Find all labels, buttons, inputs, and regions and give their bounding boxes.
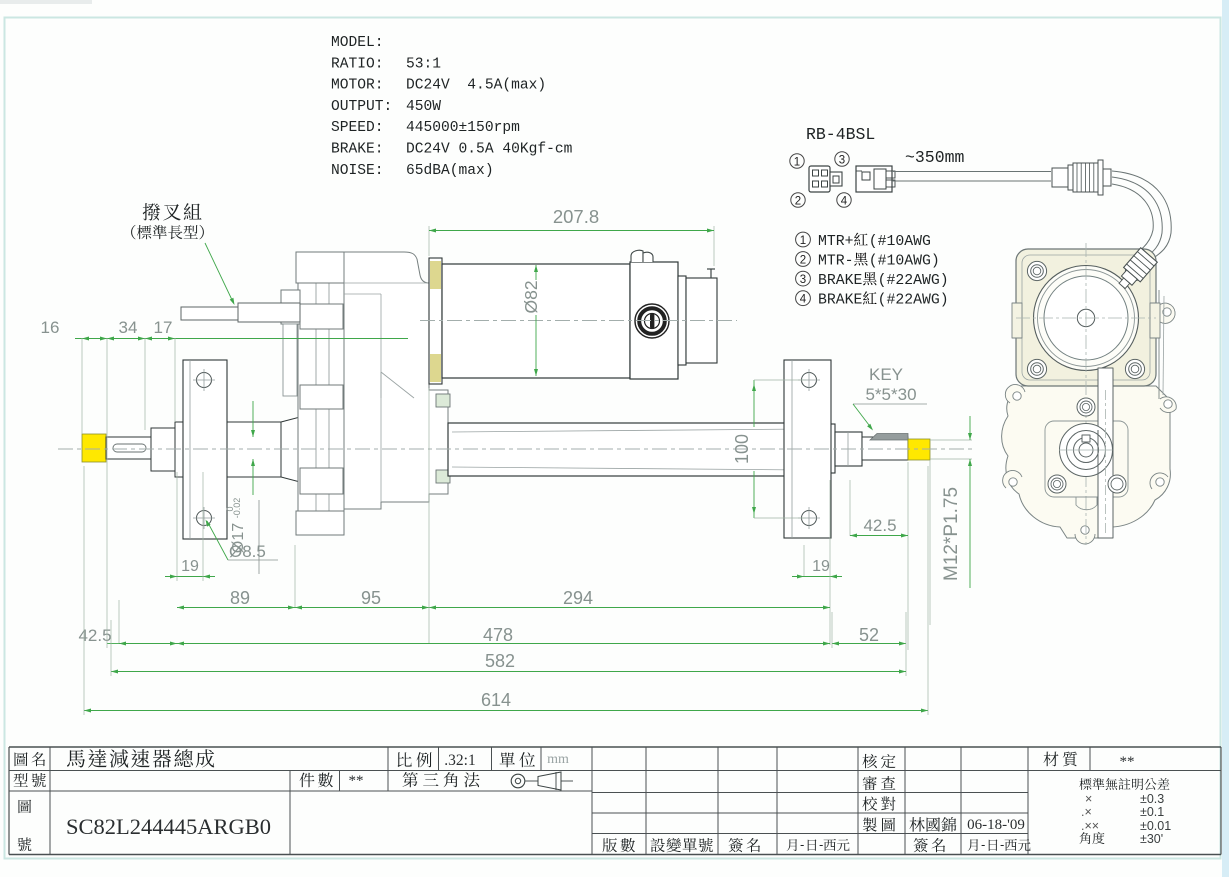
svg-text:582: 582 — [485, 651, 515, 671]
legend line 1 — [796, 232, 811, 247]
svg-text:42.5: 42.5 — [863, 516, 896, 535]
rear housing ear right-low — [1150, 473, 1168, 489]
svg-text:.×: .× — [1081, 805, 1092, 819]
svg-text:89: 89 — [230, 588, 250, 608]
fork pivot tab — [281, 290, 300, 324]
circled pin number 3 — [835, 152, 849, 166]
title unit label — [500, 752, 535, 767]
svg-text:.××: .×× — [1081, 819, 1099, 833]
hub tab lower — [436, 470, 450, 483]
bottom date label — [787, 839, 797, 851]
title cell drawing-name label — [15, 752, 46, 766]
svg-text:±0.01: ±0.01 — [1140, 819, 1171, 833]
svg-text:DC24V 4.5A(max): DC24V 4.5A(max) — [406, 78, 546, 94]
motor centerline — [420, 320, 737, 322]
rear center hub — [1077, 309, 1094, 326]
dimension 100 — [753, 380, 755, 427]
right bracket top hole — [802, 373, 817, 388]
svg-text:BRAKE: BRAKE — [818, 293, 863, 309]
title cell 號 — [18, 837, 32, 851]
rear housing ear right-top — [1158, 303, 1175, 323]
rear corner bolt BL — [1027, 359, 1046, 378]
dimension M12*P1.75 — [930, 439, 972, 441]
rear right side wall — [1158, 290, 1160, 399]
svg-text:207.8: 207.8 — [553, 206, 599, 227]
svg-text:614: 614 — [481, 690, 511, 710]
svg-text:3: 3 — [839, 155, 845, 167]
rear bottom arc detail — [1076, 497, 1097, 510]
dimension dia 82 — [535, 265, 537, 280]
third angle projection symbol — [511, 774, 525, 788]
svg-text:0: 0 — [225, 506, 235, 511]
bottom sign label 2 — [914, 838, 945, 852]
svg-text:4: 4 — [841, 196, 848, 208]
gearbox front flange column — [298, 252, 344, 535]
svg-text:**: ** — [1120, 754, 1135, 770]
tolerance note heading — [1079, 778, 1169, 790]
rear bolt below flange — [1077, 398, 1095, 416]
circled pin number 4 — [837, 193, 851, 207]
left axle yellow tip — [82, 434, 106, 462]
flange block lower — [300, 468, 343, 494]
svg-text:BRAKE:: BRAKE: — [331, 142, 384, 158]
inline connector on cable — [1052, 168, 1068, 187]
svg-text:-: - — [800, 837, 804, 852]
svg-text:52: 52 — [859, 625, 879, 645]
svg-text:KEY: KEY — [869, 365, 903, 384]
gearbox main body — [344, 252, 448, 509]
connector side view — [856, 166, 892, 192]
svg-text:100: 100 — [732, 434, 752, 464]
title qty label — [300, 773, 333, 788]
svg-text:SPEED:: SPEED: — [331, 120, 384, 136]
svg-text:M12*P1.75: M12*P1.75 — [941, 487, 962, 581]
svg-text:OUTPUT:: OUTPUT: — [331, 99, 392, 115]
rear corner bolt TR — [1125, 261, 1144, 280]
motor brake housing — [630, 262, 678, 379]
svg-text:4: 4 — [800, 294, 807, 306]
svg-text:1: 1 — [800, 235, 806, 247]
svg-text:2: 2 — [800, 254, 806, 266]
svg-text:mm: mm — [547, 752, 569, 767]
rear square flange — [1016, 249, 1156, 386]
svg-text:06-18-'09: 06-18-'09 — [967, 817, 1025, 833]
shaft cone into gearbox — [281, 417, 300, 482]
fork pivot strip — [283, 324, 297, 396]
blue side band right edge — [1222, 0, 1229, 877]
motor flange — [429, 258, 442, 384]
brake release keyhole — [635, 304, 669, 338]
svg-text:±0.3: ±0.3 — [1140, 792, 1164, 806]
svg-text:-: - — [981, 837, 985, 852]
svg-text:(#10AWG: (#10AWG — [869, 234, 931, 250]
svg-text:Ø8.5: Ø8.5 — [229, 542, 266, 561]
svg-text:(#22AWG): (#22AWG) — [878, 293, 949, 309]
svg-text:294: 294 — [563, 588, 593, 608]
left mounting bracket plate — [183, 360, 227, 539]
brake top cap — [631, 250, 643, 262]
brake ring — [678, 276, 686, 365]
svg-text:19: 19 — [812, 558, 830, 575]
legend line 2 — [796, 252, 811, 267]
legend line 3 — [796, 271, 811, 286]
left thin shaft with keyway — [106, 437, 151, 459]
svg-text:34: 34 — [119, 318, 138, 337]
svg-text:478: 478 — [483, 625, 513, 645]
rear vertical rod — [1098, 368, 1113, 538]
svg-text:MOTOR:: MOTOR: — [331, 78, 384, 94]
svg-text:17: 17 — [154, 318, 173, 337]
svg-text:±30': ±30' — [1140, 832, 1163, 846]
right block — [835, 432, 862, 466]
fork lever bar — [238, 303, 300, 322]
rear hub circles — [1060, 424, 1113, 477]
legend line 4 — [796, 291, 811, 306]
approver rows labels — [862, 754, 895, 768]
left shaft cylinder — [175, 422, 281, 477]
svg-text:±0.1: ±0.1 — [1140, 805, 1164, 819]
wires curving down to gearbox — [1112, 171, 1171, 259]
title drawing name text — [67, 749, 214, 768]
flange block mid — [300, 385, 343, 409]
flange block upper — [300, 304, 343, 329]
svg-text:19: 19 — [181, 558, 199, 575]
rear housing ear bottom — [1075, 534, 1095, 544]
right keyway — [870, 434, 908, 441]
svg-text:-: - — [1000, 837, 1004, 852]
rear corner bolt BR — [1125, 359, 1144, 378]
left bracket bottom hole — [197, 511, 212, 526]
svg-text:Ø82: Ø82 — [521, 280, 541, 313]
circled pin number 1 — [790, 154, 804, 168]
material label — [1043, 752, 1077, 767]
rear corner bolt TL — [1027, 261, 1046, 280]
svg-text:SC82L244445ARGB0: SC82L244445ARGB0 — [66, 814, 271, 839]
svg-text:1: 1 — [794, 157, 800, 169]
axle tube — [448, 423, 806, 476]
svg-text:**: ** — [349, 773, 364, 789]
svg-text:MTR-: MTR- — [818, 254, 854, 270]
right collar — [806, 421, 823, 477]
fork group label — [143, 203, 202, 220]
svg-text:16: 16 — [41, 318, 60, 337]
svg-text:BRAKE: BRAKE — [818, 273, 863, 289]
rod edges over hub — [1097, 430, 1099, 475]
rear bolt left of hub — [1048, 475, 1066, 493]
flange top cap — [296, 252, 344, 283]
rear flange side tab left — [1012, 303, 1022, 338]
svg-text:3: 3 — [800, 274, 806, 286]
svg-text:2: 2 — [795, 196, 801, 208]
svg-text:MTR+: MTR+ — [818, 234, 854, 250]
rear flange side tab right — [1150, 303, 1160, 338]
drafter name — [909, 817, 956, 832]
connector face view — [809, 166, 830, 192]
rear housing ear left — [1003, 471, 1022, 488]
title cell model label — [14, 773, 46, 787]
svg-text:NOISE:: NOISE: — [331, 163, 384, 179]
rear inner plate — [1045, 421, 1128, 497]
main shaft centerline — [58, 448, 972, 450]
dimension 207.8 — [428, 226, 430, 256]
right bracket bottom hole — [802, 511, 817, 526]
rear housing ear right-mid — [1160, 397, 1176, 413]
svg-text:445000±150rpm: 445000±150rpm — [406, 120, 520, 136]
rear bolt right of hub — [1108, 475, 1126, 493]
svg-text:(#10AWG): (#10AWG) — [869, 254, 940, 270]
svg-text:-: - — [819, 837, 823, 852]
fork label leader — [205, 243, 233, 302]
circled pin number 2 — [791, 193, 805, 207]
rear big circle — [1034, 266, 1139, 371]
svg-text:5*5*30: 5*5*30 — [865, 385, 916, 404]
left bracket top hole — [197, 373, 212, 388]
svg-text:95: 95 — [361, 588, 381, 608]
bottom row labels — [603, 838, 635, 852]
title cell 圖 — [18, 800, 31, 813]
rear housing ear top-left — [1005, 385, 1025, 403]
title projection label — [403, 772, 480, 787]
svg-text:(#22AWG): (#22AWG) — [878, 273, 949, 289]
svg-text:~350mm: ~350mm — [905, 148, 965, 167]
svg-text:.32:1: .32:1 — [444, 752, 475, 769]
title scale label — [398, 752, 432, 767]
right axle yellow tip — [908, 439, 930, 460]
right mounting bracket plate — [784, 360, 831, 538]
motor body — [442, 264, 630, 378]
gearbox body inner lines — [380, 294, 382, 502]
hub tab upper — [436, 394, 450, 407]
angled plug at gearbox — [1114, 248, 1158, 293]
svg-text:DC24V 0.5A 40Kgf-cm: DC24V 0.5A 40Kgf-cm — [406, 142, 573, 158]
dimension dia17 tolerance — [252, 401, 254, 437]
top-left gray tab — [0, 0, 92, 4]
svg-text:RB-4BSL: RB-4BSL — [806, 125, 875, 144]
rear lower housing outline — [1002, 386, 1171, 538]
svg-text:450W: 450W — [406, 99, 441, 115]
svg-text:42.5: 42.5 — [78, 626, 111, 645]
left collar — [151, 428, 175, 471]
cable wires to inline connector — [892, 171, 1051, 173]
rear crosshairs — [1016, 317, 1156, 319]
end cap pin — [710, 269, 712, 278]
flange bottom cap — [296, 511, 344, 535]
svg-text:53:1: 53:1 — [406, 56, 441, 72]
bottom date label 2 — [968, 839, 978, 851]
rear view group — [1002, 243, 1177, 545]
svg-text:MODEL:: MODEL: — [331, 35, 384, 51]
motor end cap — [686, 278, 717, 363]
right thin shaft — [862, 437, 908, 460]
svg-text:×: × — [1085, 792, 1092, 806]
svg-text:65dBA(max): 65dBA(max) — [406, 163, 494, 179]
title block table — [9, 746, 1221, 748]
svg-text:RATIO:: RATIO: — [331, 56, 384, 72]
